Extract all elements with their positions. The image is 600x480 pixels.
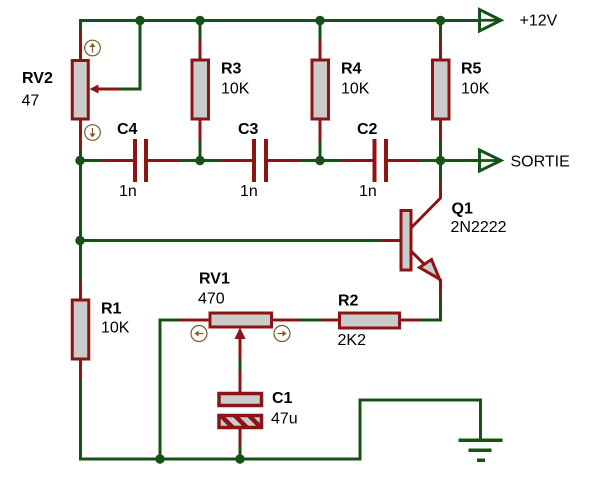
svg-text:C2: C2 <box>357 121 378 138</box>
wire bottom rail <box>79 458 362 461</box>
junction node top rail at RV2 wiper <box>135 16 144 25</box>
wire top +12V rail <box>79 19 499 22</box>
pin C1 top lead <box>239 371 242 393</box>
power flag +12V <box>480 10 502 32</box>
resistor R5 body <box>433 60 450 119</box>
junction node bottom rail at RV1 <box>155 454 164 463</box>
wire bottom rail riser to ground run <box>360 400 481 461</box>
value 10K R1 <box>101 320 130 337</box>
pin RV1 left <box>180 319 210 322</box>
capacitor C1 top plate <box>219 394 262 406</box>
value 1n C2 <box>359 183 377 200</box>
potentiometer RV1 body <box>210 313 272 327</box>
value 1n C4 <box>119 183 137 200</box>
junction node SORTIE rail at R5 collector <box>436 156 445 165</box>
output flag SORTIE <box>480 150 502 171</box>
label R1 <box>101 301 122 318</box>
wire RV2 wiper to top rail <box>119 20 140 89</box>
wire RV1 to R2 <box>299 319 323 322</box>
pin R4 bottom <box>319 120 322 141</box>
wire R1 bottom to ground rail <box>79 380 82 461</box>
wire left vertical to R1 <box>79 160 82 282</box>
svg-text:47: 47 <box>22 93 40 110</box>
pin R5 top <box>439 40 442 60</box>
label R2 <box>338 293 359 310</box>
symbol RV2 up arrow circle <box>85 40 101 56</box>
value 1n C3 <box>240 183 258 200</box>
pin C3 right <box>267 159 300 162</box>
label C2 <box>357 121 378 138</box>
capacitor C1 bottom plate <box>219 416 262 428</box>
resistor R2 body <box>340 313 400 328</box>
junction node top rail at R4 <box>315 16 324 25</box>
pin R1 bottom <box>79 360 82 381</box>
svg-text:R3: R3 <box>221 61 242 78</box>
junction node SORTIE rail at R3 <box>195 156 204 165</box>
wire R5 top stub <box>439 20 442 41</box>
junction node top rail at R5 <box>436 16 445 25</box>
wire RV1 wiper middle segment <box>239 359 242 372</box>
transistor Q1 collector line <box>411 198 441 229</box>
svg-text:470: 470 <box>198 291 225 308</box>
label RV2 <box>22 70 53 87</box>
junction node SORTIE rail at R4 <box>315 156 324 165</box>
transistor Q1 emitter line <box>411 251 440 280</box>
svg-text:2N2222: 2N2222 <box>451 219 507 236</box>
pin R3 bottom <box>199 120 202 141</box>
pin C3 left <box>221 159 254 162</box>
capacitor C2 plates <box>373 139 389 182</box>
wire SORTIE rail segment 2 <box>179 159 222 162</box>
wire RV1 left lead <box>160 320 181 460</box>
pin RV1 right <box>271 319 300 322</box>
pin RV2 bottom <box>79 120 82 151</box>
potentiometer RV2 body <box>72 61 88 120</box>
wire R2 to emitter <box>420 298 441 320</box>
wire base line <box>80 239 383 242</box>
pin R2 right <box>400 319 421 322</box>
svg-text:RV2: RV2 <box>22 70 53 87</box>
label +12V <box>520 13 558 30</box>
label R3 <box>221 61 242 78</box>
pin R1 top <box>79 281 82 300</box>
resistor R4 body <box>312 60 329 119</box>
svg-text:1n: 1n <box>240 183 258 200</box>
svg-text:R4: R4 <box>341 61 362 78</box>
ground symbol <box>459 439 503 463</box>
svg-text:Q1: Q1 <box>452 201 473 218</box>
value 10K R3 <box>221 81 250 98</box>
resistor R3 body <box>192 60 209 119</box>
svg-text:10K: 10K <box>221 81 250 98</box>
wire R4 bottom stub <box>319 140 322 160</box>
label R4 <box>341 61 362 78</box>
pin R2 left <box>322 319 339 322</box>
svg-text:C3: C3 <box>238 121 259 138</box>
pin C4 left <box>101 159 134 162</box>
label C4 <box>117 121 138 138</box>
potentiometer RV2 wiper arrow <box>90 85 121 94</box>
label SORTIE <box>511 154 570 171</box>
wire R3 top stub <box>199 20 202 41</box>
value 10K R4 <box>341 81 370 98</box>
svg-text:RV1: RV1 <box>199 271 230 288</box>
value 47 <box>22 93 40 110</box>
wire R5 bottom stub <box>439 140 442 160</box>
label C1 <box>272 390 293 407</box>
capacitor C4 plates <box>133 139 148 182</box>
value 470 <box>198 291 225 308</box>
label RV1 <box>199 271 230 288</box>
wire SORTIE rail segment 1 <box>80 159 102 162</box>
pin C4 right <box>147 159 180 162</box>
label R5 <box>461 61 482 78</box>
pin C1 bottom lead <box>239 428 242 447</box>
pin R3 top <box>199 40 202 60</box>
transistor Q1 base bar <box>401 211 411 271</box>
resistor R1 body <box>72 300 89 359</box>
svg-text:1n: 1n <box>359 183 377 200</box>
pin Q1 emitter vertical <box>439 279 442 299</box>
pin Q1 base <box>382 239 400 242</box>
label C3 <box>238 121 259 138</box>
pin Q1 collector vertical <box>439 183 442 198</box>
pin C2 right <box>387 159 420 162</box>
svg-text:C4: C4 <box>117 121 138 138</box>
wire R3 bottom stub <box>199 140 202 160</box>
svg-text:R5: R5 <box>461 61 482 78</box>
wire C1 to ground rail <box>239 446 242 459</box>
pin R5 bottom <box>439 120 442 141</box>
wire SORTIE rail segment 3 <box>299 159 342 162</box>
svg-text:1n: 1n <box>119 183 137 200</box>
value 10K R5 <box>461 81 490 98</box>
value 47u <box>271 411 298 428</box>
junction node SORTIE rail left <box>75 156 84 165</box>
svg-text:SORTIE: SORTIE <box>511 154 570 171</box>
svg-text:47u: 47u <box>271 411 298 428</box>
svg-text:C1: C1 <box>272 390 293 407</box>
wire SORTIE rail segment 4 <box>419 159 499 162</box>
label Q1 <box>452 201 473 218</box>
svg-text:10K: 10K <box>341 81 370 98</box>
svg-text:+12V: +12V <box>520 13 558 30</box>
svg-text:R2: R2 <box>338 293 359 310</box>
potentiometer RV1 wiper arrow <box>234 328 245 361</box>
wire left vertical top stub <box>79 19 82 32</box>
svg-text:10K: 10K <box>101 320 130 337</box>
pin R4 top <box>319 40 322 60</box>
wire RV2 bottom to SORTIE rail <box>79 150 82 160</box>
wire collector to SORTIE node <box>439 160 442 184</box>
symbol RV1 left arrow circle <box>191 326 207 342</box>
wire R4 top stub <box>319 20 322 41</box>
junction node base wire left <box>75 236 84 245</box>
junction node top rail at R3 <box>195 16 204 25</box>
svg-text:R1: R1 <box>101 301 122 318</box>
capacitor C3 plates <box>252 139 268 182</box>
value 2N2222 <box>451 219 507 236</box>
svg-text:10K: 10K <box>461 81 490 98</box>
value 2K2 <box>338 332 367 349</box>
transistor Q1 emitter arrowhead <box>420 260 440 280</box>
symbol RV1 right arrow circle <box>274 326 290 342</box>
pin RV2 top <box>79 30 82 60</box>
junction node bottom rail at C1 <box>235 454 244 463</box>
pin C2 left <box>341 159 374 162</box>
svg-text:2K2: 2K2 <box>338 332 367 349</box>
symbol RV2 down arrow circle <box>85 125 101 141</box>
